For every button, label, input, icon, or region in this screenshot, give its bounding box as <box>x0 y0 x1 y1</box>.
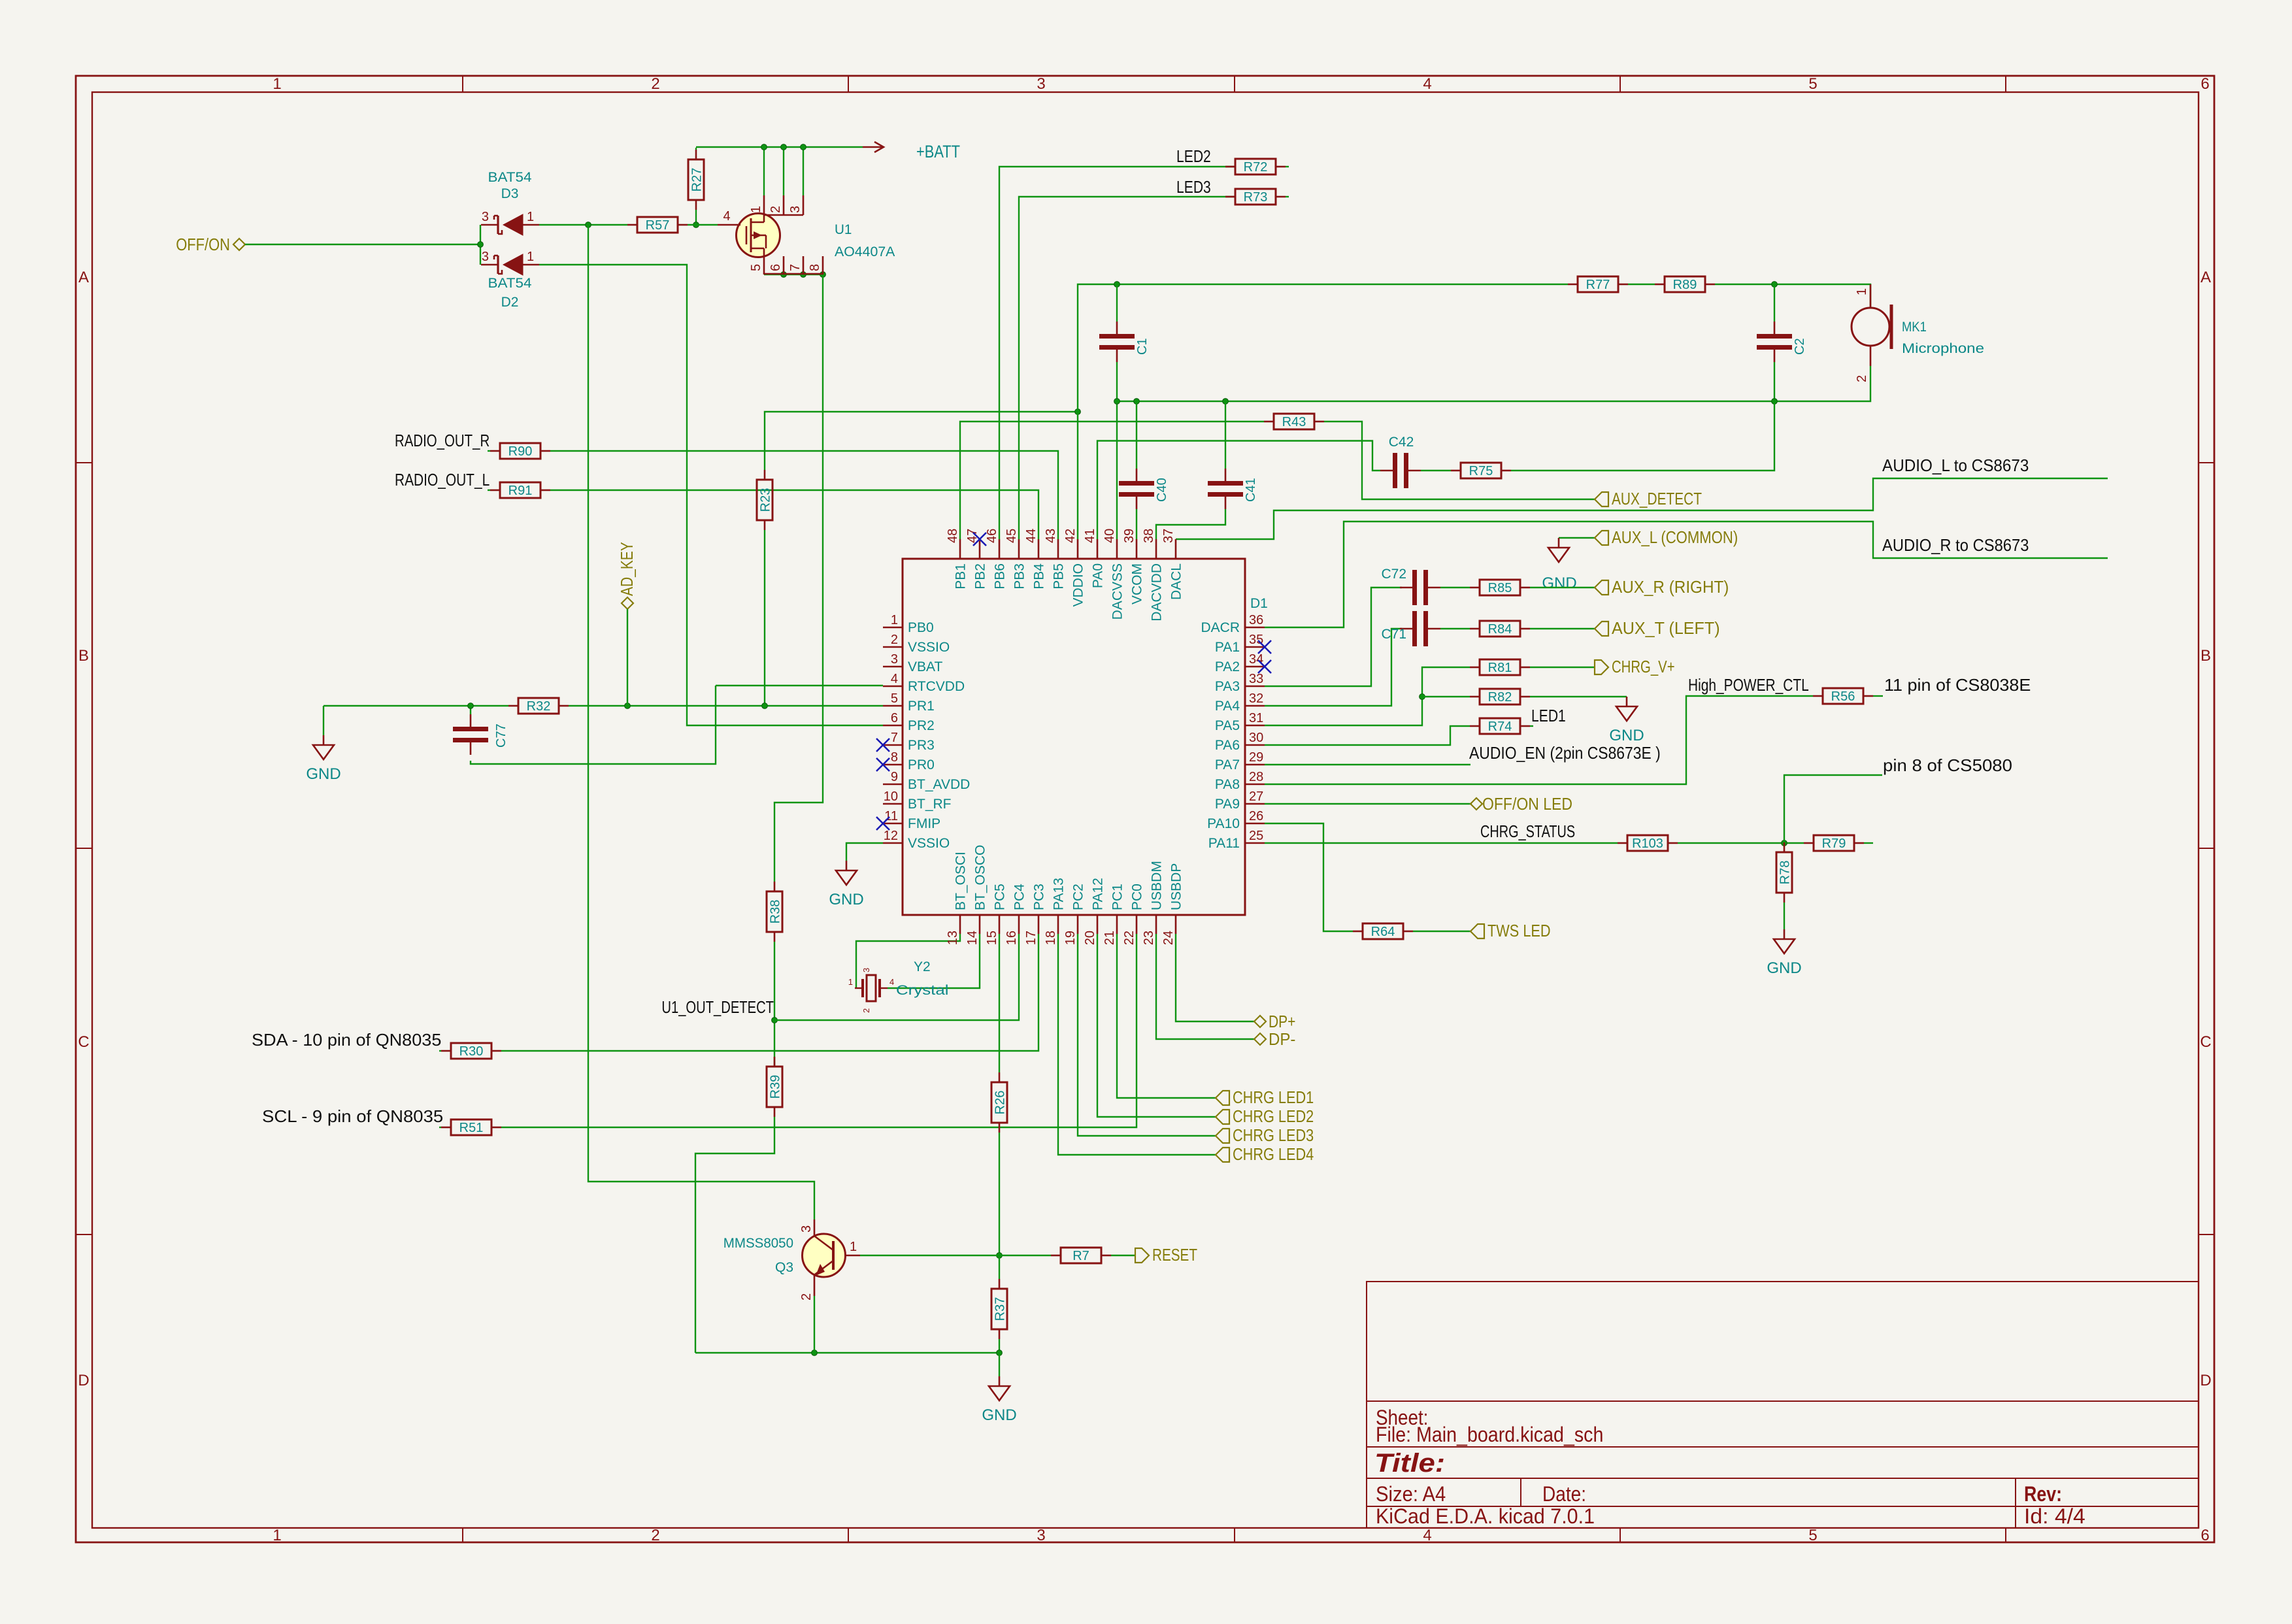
svg-text:R90: R90 <box>508 444 533 459</box>
svg-text:LED3: LED3 <box>1176 177 1211 197</box>
svg-text:AUX_L (COMMON): AUX_L (COMMON) <box>1612 527 1738 547</box>
svg-text:43: 43 <box>1044 529 1058 543</box>
svg-text:46: 46 <box>985 529 999 543</box>
svg-text:AUDIO_R to CS8673: AUDIO_R to CS8673 <box>1882 535 2029 555</box>
svg-text:LED2: LED2 <box>1176 146 1211 166</box>
svg-text:PR2: PR2 <box>908 718 935 733</box>
svg-text:5: 5 <box>1808 75 1817 93</box>
svg-text:PC4: PC4 <box>1012 884 1027 910</box>
svg-text:32: 32 <box>1249 691 1263 706</box>
svg-text:1: 1 <box>527 250 534 264</box>
svg-text:R74: R74 <box>1488 720 1512 734</box>
svg-text:44: 44 <box>1024 529 1038 543</box>
svg-text:OFF/ON LED: OFF/ON LED <box>1482 794 1572 814</box>
svg-text:4: 4 <box>1423 75 1431 93</box>
svg-text:R78: R78 <box>1778 861 1793 885</box>
svg-text:PA3: PA3 <box>1215 679 1240 694</box>
svg-text:3: 3 <box>799 1225 814 1233</box>
svg-text:3: 3 <box>1037 1527 1045 1544</box>
svg-text:VSSIO: VSSIO <box>908 640 950 655</box>
svg-text:PB4: PB4 <box>1032 563 1047 589</box>
svg-text:1: 1 <box>527 210 534 224</box>
svg-text:GND: GND <box>982 1406 1016 1424</box>
svg-text:28: 28 <box>1249 770 1263 784</box>
svg-text:2: 2 <box>651 75 659 93</box>
svg-text:MMSS8050: MMSS8050 <box>723 1236 793 1251</box>
svg-text:GND: GND <box>306 765 340 783</box>
svg-text:Id: 4/4: Id: 4/4 <box>2024 1504 2085 1528</box>
svg-text:17: 17 <box>1024 931 1038 945</box>
svg-text:C40: C40 <box>1155 478 1169 502</box>
svg-text:DACR: DACR <box>1201 620 1240 635</box>
svg-text:C2: C2 <box>1793 338 1807 355</box>
svg-text:CHRG LED3: CHRG LED3 <box>1233 1125 1314 1145</box>
svg-text:PA13: PA13 <box>1052 878 1067 910</box>
svg-text:Q3: Q3 <box>775 1260 793 1275</box>
svg-text:PA11: PA11 <box>1208 836 1240 851</box>
svg-text:PB3: PB3 <box>1012 563 1027 589</box>
svg-text:FMIP: FMIP <box>908 816 940 831</box>
svg-text:PB1: PB1 <box>954 563 969 589</box>
svg-text:A: A <box>2201 269 2211 286</box>
svg-text:12: 12 <box>884 829 898 843</box>
svg-text:40: 40 <box>1103 529 1117 543</box>
svg-text:PA12: PA12 <box>1091 878 1106 910</box>
svg-text:pin 8 of CS5080: pin 8 of CS5080 <box>1883 755 2012 775</box>
svg-text:BT_OSCI: BT_OSCI <box>954 852 969 910</box>
svg-text:21: 21 <box>1103 931 1117 945</box>
svg-text:11 pin of CS8038E: 11 pin of CS8038E <box>1884 675 2031 695</box>
svg-text:1: 1 <box>848 977 853 987</box>
svg-text:R43: R43 <box>1282 415 1306 429</box>
svg-text:PA6: PA6 <box>1215 738 1240 753</box>
svg-text:14: 14 <box>965 931 980 945</box>
svg-text:RADIO_OUT_R: RADIO_OUT_R <box>395 431 490 450</box>
svg-text:7: 7 <box>891 731 898 745</box>
svg-text:Microphone: Microphone <box>1902 341 1984 356</box>
svg-text:C72: C72 <box>1381 567 1406 582</box>
svg-text:Size: A4: Size: A4 <box>1376 1482 1446 1506</box>
svg-text:R7: R7 <box>1072 1249 1089 1263</box>
svg-text:6: 6 <box>2201 1527 2209 1544</box>
svg-text:AO4407A: AO4407A <box>835 244 895 259</box>
svg-text:8: 8 <box>808 264 822 271</box>
svg-text:PA9: PA9 <box>1215 797 1240 812</box>
svg-text:High_POWER_CTL: High_POWER_CTL <box>1688 675 1809 695</box>
svg-text:+BATT: +BATT <box>916 142 960 161</box>
svg-text:9: 9 <box>891 770 898 784</box>
svg-text:PA2: PA2 <box>1215 659 1240 674</box>
svg-text:22: 22 <box>1122 931 1137 945</box>
svg-text:D2: D2 <box>501 295 519 310</box>
svg-text:Rev:: Rev: <box>2024 1482 2062 1506</box>
svg-text:R81: R81 <box>1488 661 1512 675</box>
svg-text:1: 1 <box>850 1240 857 1254</box>
svg-text:PA1: PA1 <box>1215 640 1240 655</box>
svg-text:C71: C71 <box>1381 627 1406 642</box>
svg-text:37: 37 <box>1161 529 1176 543</box>
svg-text:PR1: PR1 <box>908 699 935 714</box>
svg-text:39: 39 <box>1122 529 1137 543</box>
svg-text:AUX_R (RIGHT): AUX_R (RIGHT) <box>1612 577 1729 597</box>
svg-text:Title:: Title: <box>1374 1449 1445 1478</box>
svg-text:VSSIO: VSSIO <box>908 836 950 851</box>
svg-text:2: 2 <box>769 206 783 213</box>
svg-text:C: C <box>78 1033 89 1051</box>
svg-text:R103: R103 <box>1632 837 1663 851</box>
svg-text:R38: R38 <box>769 900 783 924</box>
svg-text:5: 5 <box>749 264 763 271</box>
svg-text:BAT54: BAT54 <box>488 276 532 291</box>
svg-text:3: 3 <box>482 250 489 264</box>
svg-text:10: 10 <box>884 789 898 804</box>
svg-text:R39: R39 <box>769 1075 783 1099</box>
svg-text:45: 45 <box>1005 529 1019 543</box>
svg-text:R79: R79 <box>1822 837 1846 851</box>
svg-text:R30: R30 <box>459 1044 484 1059</box>
svg-text:BT_OSCO: BT_OSCO <box>973 845 988 910</box>
svg-text:PA8: PA8 <box>1215 777 1240 792</box>
svg-text:LED1: LED1 <box>1531 706 1566 725</box>
svg-text:U1: U1 <box>835 222 852 237</box>
svg-text:KiCad E.D.A. kicad 7.0.1: KiCad E.D.A. kicad 7.0.1 <box>1376 1504 1595 1528</box>
svg-text:B: B <box>78 647 89 665</box>
svg-text:4: 4 <box>889 977 894 987</box>
svg-text:3: 3 <box>861 968 871 972</box>
svg-text:USBDP: USBDP <box>1169 863 1184 910</box>
svg-text:R82: R82 <box>1488 690 1512 704</box>
svg-text:23: 23 <box>1142 931 1156 945</box>
svg-text:20: 20 <box>1083 931 1097 945</box>
svg-text:R77: R77 <box>1586 278 1610 292</box>
svg-text:48: 48 <box>946 529 960 543</box>
svg-text:GND: GND <box>1542 574 1576 592</box>
svg-text:2: 2 <box>1855 375 1869 382</box>
svg-text:PA5: PA5 <box>1215 718 1240 733</box>
svg-text:AUDIO_L to CS8673: AUDIO_L to CS8673 <box>1882 456 2029 475</box>
svg-text:GND: GND <box>1609 727 1644 744</box>
svg-text:A: A <box>78 269 89 286</box>
svg-text:DACL: DACL <box>1169 563 1184 600</box>
svg-text:R32: R32 <box>527 699 551 714</box>
svg-text:MK1: MK1 <box>1902 320 1927 335</box>
svg-text:PB0: PB0 <box>908 620 934 635</box>
svg-text:R85: R85 <box>1488 581 1512 595</box>
svg-text:DP+: DP+ <box>1269 1012 1295 1031</box>
svg-text:R57: R57 <box>646 218 670 233</box>
svg-text:PR0: PR0 <box>908 757 935 772</box>
svg-text:GND: GND <box>829 891 863 908</box>
svg-text:R56: R56 <box>1831 689 1855 704</box>
svg-text:3: 3 <box>1037 75 1045 93</box>
svg-text:R84: R84 <box>1488 622 1512 637</box>
svg-text:SDA - 10 pin of QN8035: SDA - 10 pin of QN8035 <box>252 1030 441 1050</box>
svg-text:38: 38 <box>1142 529 1156 543</box>
svg-text:19: 19 <box>1063 931 1078 945</box>
svg-text:PB5: PB5 <box>1052 563 1067 589</box>
svg-text:BT_RF: BT_RF <box>908 797 952 812</box>
svg-text:PB6: PB6 <box>993 563 1008 589</box>
svg-text:PA0: PA0 <box>1091 563 1106 588</box>
svg-text:30: 30 <box>1249 731 1263 745</box>
svg-text:1: 1 <box>891 613 898 627</box>
svg-text:25: 25 <box>1249 829 1263 843</box>
svg-text:6: 6 <box>2201 75 2209 93</box>
svg-text:OFF/ON: OFF/ON <box>176 235 230 254</box>
svg-text:VCOM: VCOM <box>1130 563 1145 605</box>
svg-text:PC2: PC2 <box>1071 884 1086 910</box>
svg-text:R27: R27 <box>690 168 705 192</box>
svg-text:TWS LED: TWS LED <box>1487 921 1551 940</box>
svg-text:2: 2 <box>799 1293 814 1301</box>
svg-text:Crystal: Crystal <box>896 983 949 998</box>
svg-text:4: 4 <box>723 209 730 224</box>
svg-text:PC1: PC1 <box>1110 884 1125 910</box>
svg-text:R72: R72 <box>1244 160 1268 174</box>
svg-text:CHRG_V+: CHRG_V+ <box>1612 657 1675 676</box>
svg-text:C1: C1 <box>1135 338 1150 355</box>
svg-text:DACVDD: DACVDD <box>1150 563 1165 621</box>
svg-text:AUDIO_EN (2pin CS8673E ): AUDIO_EN (2pin CS8673E ) <box>1469 743 1661 763</box>
svg-text:BT_AVDD: BT_AVDD <box>908 777 970 792</box>
svg-text:C41: C41 <box>1244 478 1258 502</box>
svg-text:6: 6 <box>891 711 898 725</box>
svg-text:RESET: RESET <box>1152 1245 1197 1265</box>
svg-text:PC0: PC0 <box>1130 884 1145 910</box>
svg-text:11: 11 <box>884 809 898 823</box>
svg-text:DP-: DP- <box>1269 1029 1295 1049</box>
svg-text:U1_OUT_DETECT: U1_OUT_DETECT <box>661 997 774 1017</box>
svg-text:3: 3 <box>482 210 489 224</box>
svg-text:R51: R51 <box>459 1121 484 1135</box>
svg-text:B: B <box>2201 647 2211 665</box>
svg-text:R73: R73 <box>1244 190 1268 205</box>
svg-text:1: 1 <box>1855 288 1869 295</box>
svg-text:1: 1 <box>273 75 281 93</box>
svg-text:D1: D1 <box>1250 596 1268 611</box>
svg-text:VDDIO: VDDIO <box>1071 563 1086 607</box>
svg-text:SCL - 9 pin of QN8035: SCL - 9 pin of QN8035 <box>262 1106 443 1126</box>
svg-text:3: 3 <box>788 206 803 213</box>
svg-text:RTCVDD: RTCVDD <box>908 679 965 694</box>
svg-text:24: 24 <box>1161 931 1176 945</box>
svg-text:26: 26 <box>1249 809 1263 823</box>
svg-text:5: 5 <box>1808 1527 1817 1544</box>
svg-text:2: 2 <box>891 633 898 647</box>
svg-text:1: 1 <box>273 1527 281 1544</box>
svg-text:5: 5 <box>891 691 898 706</box>
svg-text:PA10: PA10 <box>1207 816 1240 831</box>
svg-text:AD_KEY: AD_KEY <box>617 542 637 596</box>
svg-text:18: 18 <box>1044 931 1058 945</box>
svg-text:USBDM: USBDM <box>1150 861 1165 910</box>
svg-text:D: D <box>78 1372 89 1389</box>
svg-text:VBAT: VBAT <box>908 659 942 674</box>
svg-text:8: 8 <box>891 750 898 765</box>
svg-text:Y2: Y2 <box>914 959 931 974</box>
svg-text:CHRG LED1: CHRG LED1 <box>1233 1087 1314 1107</box>
svg-text:C77: C77 <box>494 723 508 748</box>
svg-text:File: Main_board.kicad_sch: File: Main_board.kicad_sch <box>1376 1423 1603 1446</box>
svg-text:33: 33 <box>1249 672 1263 686</box>
svg-text:2: 2 <box>651 1527 659 1544</box>
svg-text:R89: R89 <box>1673 278 1697 292</box>
svg-text:CHRG LED2: CHRG LED2 <box>1233 1106 1314 1126</box>
svg-text:D3: D3 <box>501 186 519 201</box>
svg-text:PC3: PC3 <box>1032 884 1047 910</box>
svg-text:29: 29 <box>1249 750 1263 765</box>
svg-text:GND: GND <box>1767 959 1801 977</box>
svg-text:CHRG_STATUS: CHRG_STATUS <box>1480 821 1575 841</box>
svg-text:R23: R23 <box>759 488 773 512</box>
svg-text:BAT54: BAT54 <box>488 170 532 185</box>
svg-text:C: C <box>2200 1033 2211 1051</box>
svg-text:C42: C42 <box>1389 435 1414 450</box>
svg-text:4: 4 <box>891 672 898 686</box>
svg-text:R37: R37 <box>993 1297 1008 1321</box>
svg-text:R26: R26 <box>993 1091 1008 1115</box>
svg-text:PA4: PA4 <box>1215 699 1240 714</box>
svg-text:27: 27 <box>1249 789 1263 804</box>
svg-text:PC5: PC5 <box>993 884 1008 910</box>
svg-text:2: 2 <box>861 1008 871 1013</box>
svg-text:15: 15 <box>985 931 999 945</box>
svg-text:36: 36 <box>1249 613 1263 627</box>
svg-text:Date:: Date: <box>1542 1482 1586 1506</box>
svg-text:42: 42 <box>1063 529 1078 543</box>
svg-text:AUX_DETECT: AUX_DETECT <box>1612 489 1702 508</box>
svg-text:R91: R91 <box>508 484 533 498</box>
svg-text:RADIO_OUT_L: RADIO_OUT_L <box>395 470 490 489</box>
svg-text:PA7: PA7 <box>1215 757 1240 772</box>
svg-text:41: 41 <box>1083 529 1097 543</box>
svg-text:16: 16 <box>1005 931 1019 945</box>
svg-text:6: 6 <box>769 264 783 271</box>
svg-text:3: 3 <box>891 652 898 667</box>
svg-text:PR3: PR3 <box>908 738 935 753</box>
svg-text:31: 31 <box>1249 711 1263 725</box>
svg-text:4: 4 <box>1423 1527 1431 1544</box>
svg-text:AUX_T (LEFT): AUX_T (LEFT) <box>1612 618 1720 638</box>
svg-text:R75: R75 <box>1469 464 1493 478</box>
svg-text:R64: R64 <box>1371 925 1395 939</box>
svg-text:D: D <box>2200 1372 2211 1389</box>
svg-text:PB2: PB2 <box>973 563 988 589</box>
svg-text:13: 13 <box>946 931 960 945</box>
svg-text:DACVSS: DACVSS <box>1110 563 1125 620</box>
svg-text:1: 1 <box>749 206 763 213</box>
svg-text:7: 7 <box>788 264 803 271</box>
svg-text:CHRG LED4: CHRG LED4 <box>1233 1144 1314 1164</box>
